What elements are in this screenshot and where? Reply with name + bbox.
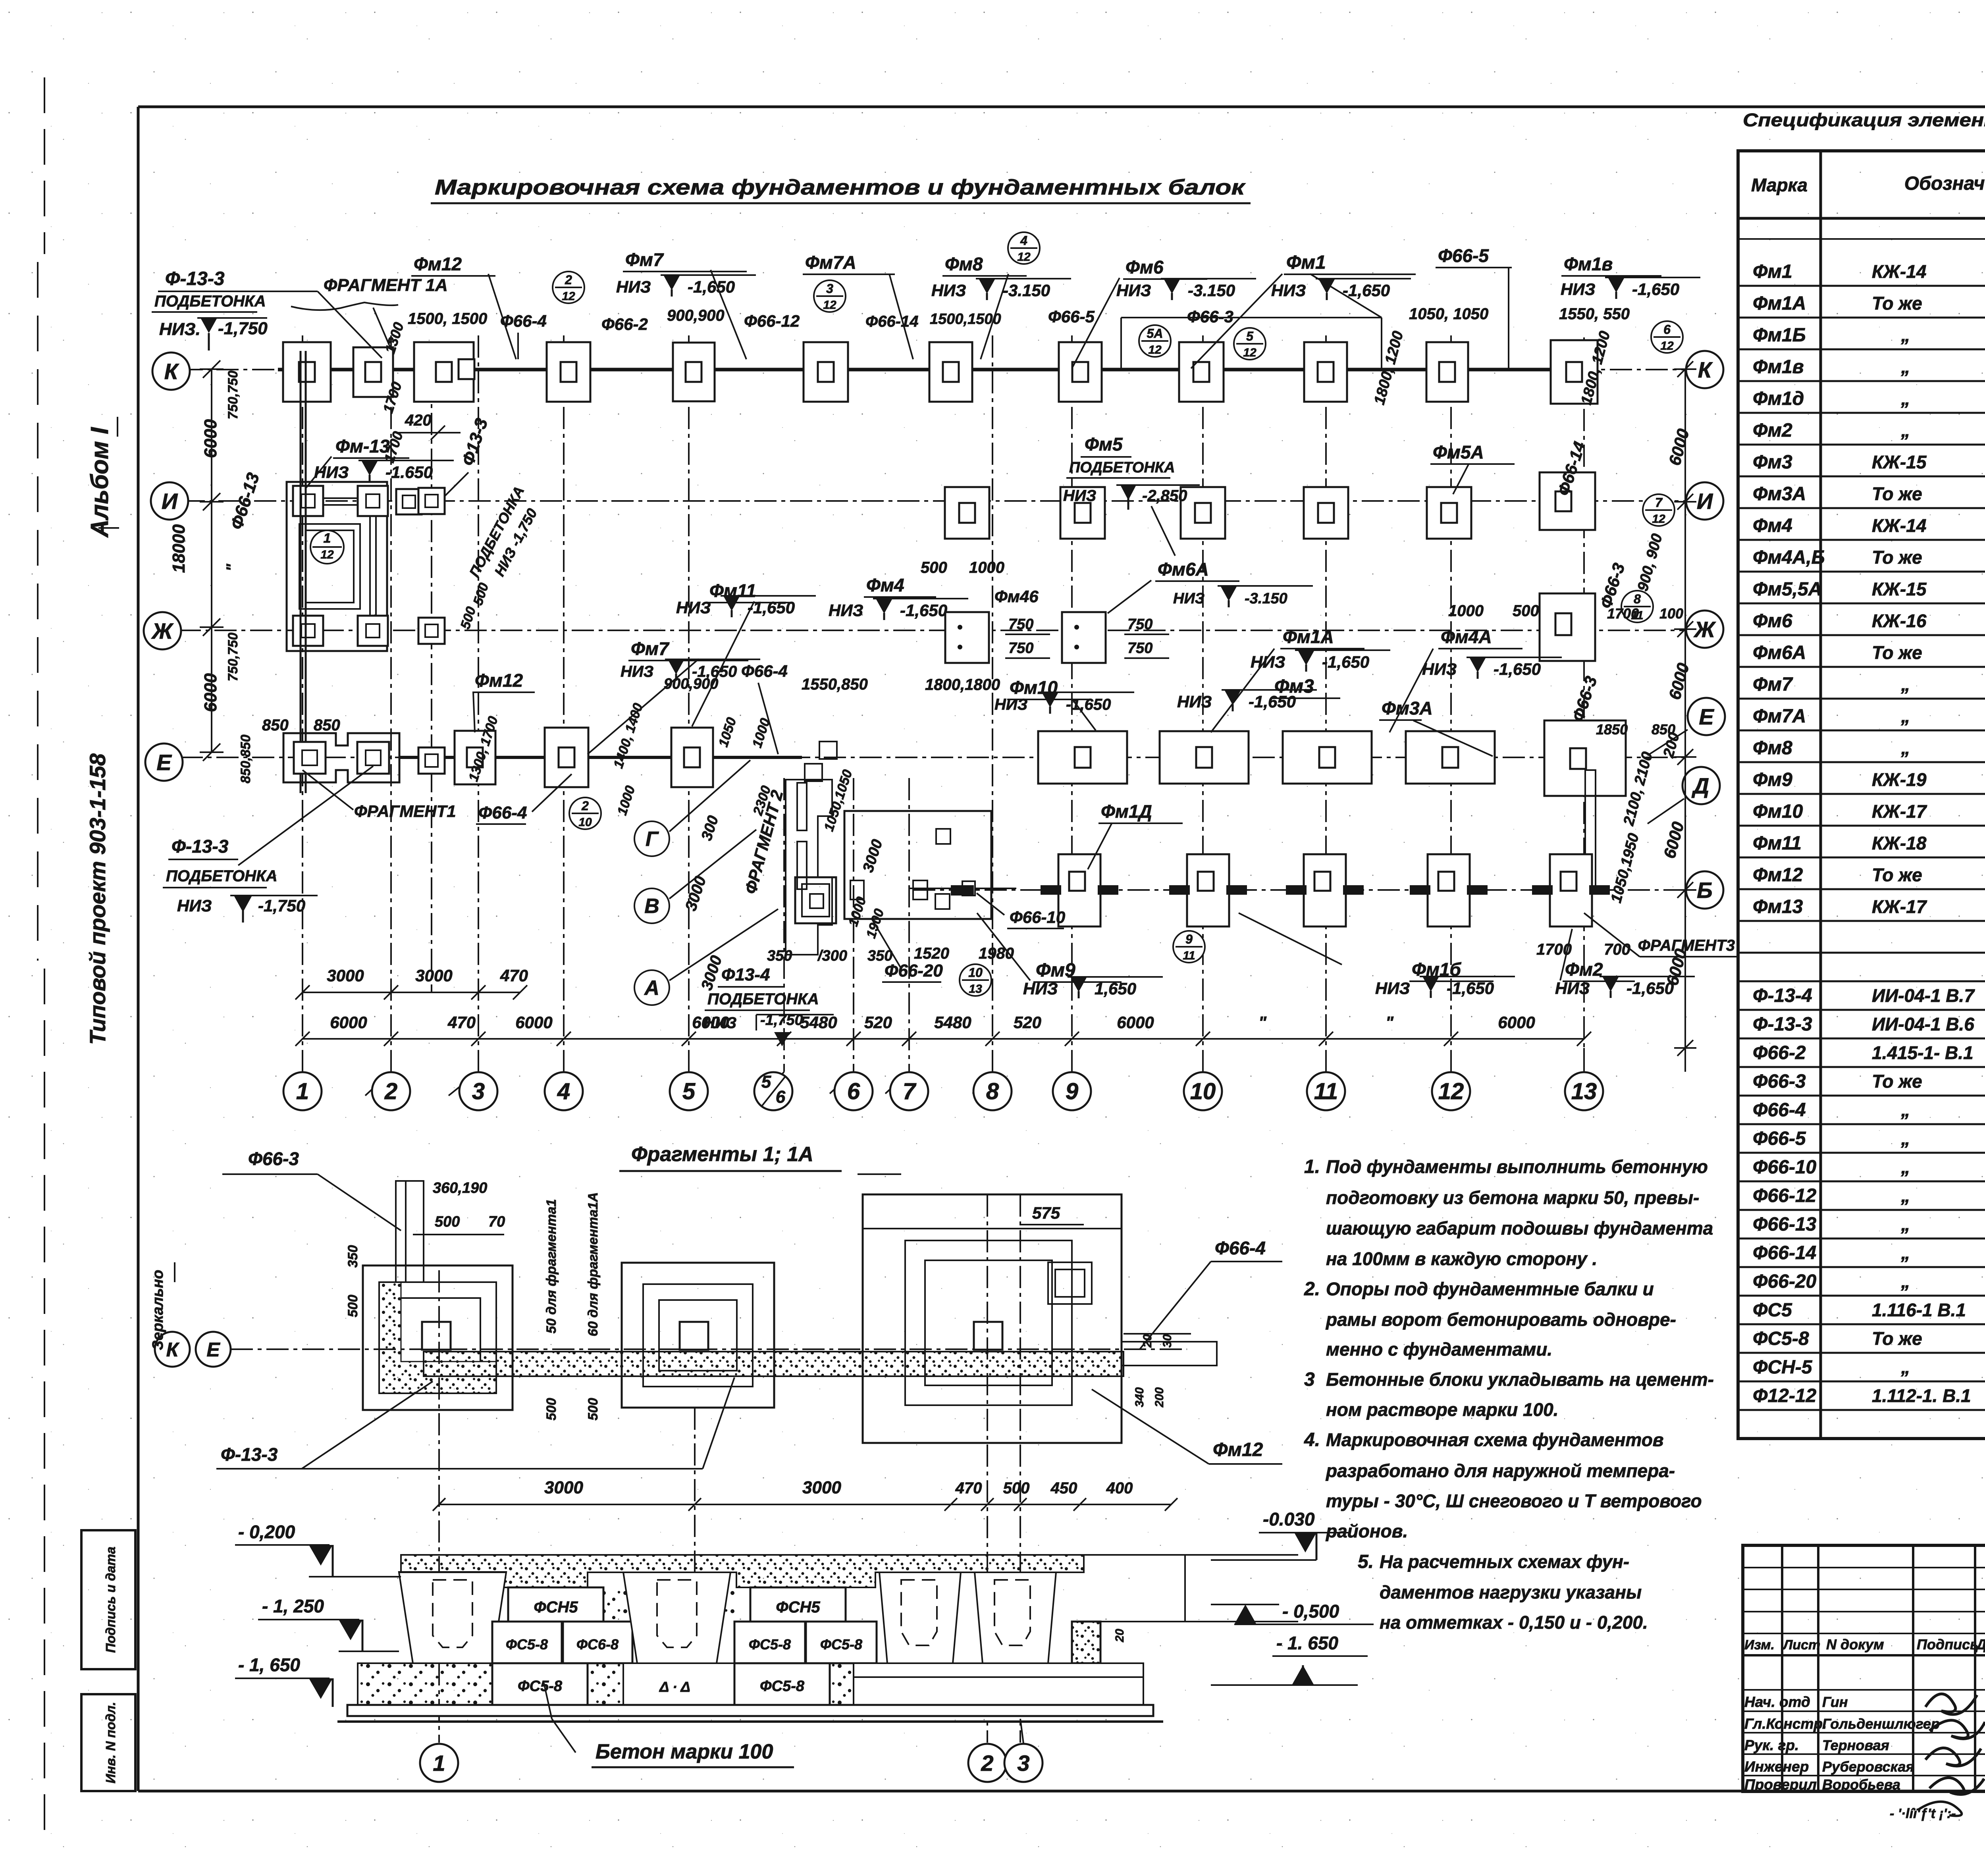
svg-text:750: 750: [1127, 616, 1152, 633]
svg-text:470: 470: [500, 966, 528, 985]
fragment 2 complex: [786, 780, 836, 955]
svg-text:Ф66-10: Ф66-10: [1010, 908, 1065, 926]
svg-text:9: 9: [1185, 932, 1193, 946]
svg-text:И: И: [1697, 489, 1713, 514]
svg-text:3: 3: [1017, 1751, 1029, 1776]
pair square row Ж x2730: [1062, 612, 1106, 663]
svg-text:12: 12: [823, 299, 836, 312]
axis line Ж: [179, 630, 1685, 631]
dim 1050 1950 rotated: [1608, 832, 1642, 905]
svg-text:Ф66-14: Ф66-14: [1753, 1242, 1816, 1264]
table row 38 Ф12-12: [1753, 1380, 1985, 1406]
svg-text:Фм12: Фм12: [414, 254, 462, 274]
svg-text:- 1, 650: - 1, 650: [238, 1655, 300, 1675]
svg-text:ФС5-8: ФС5-8: [518, 1678, 563, 1695]
svg-text:Фм1Д: Фм1Д: [1101, 801, 1152, 822]
label Ф66-3 fragment: [222, 1148, 401, 1231]
svg-text:11: 11: [1314, 1079, 1338, 1104]
svg-text:Типовой проект 903-1-158: Типовой проект 903-1-158: [85, 753, 110, 1045]
svg-text:400: 400: [1106, 1479, 1133, 1497]
svg-text:НИЗ: НИЗ: [994, 696, 1027, 713]
svg-text:ФС5-8: ФС5-8: [820, 1636, 862, 1653]
svg-text:Фм4: Фм4: [866, 575, 904, 595]
svg-text:Фм7: Фм7: [631, 638, 670, 659]
svg-text:Спецификация элементов к ма: Спецификация элементов к маркировочной с…: [1743, 110, 1985, 130]
label Ф66-4 bottom: [476, 774, 572, 824]
svg-text:6000: 6000: [201, 419, 220, 458]
svg-text:60 для фрагмента1А: 60 для фрагмента1А: [586, 1192, 601, 1336]
svg-text:КЖ-15: КЖ-15: [1872, 579, 1927, 599]
section trapezoid pedestal 2: [623, 1572, 730, 1663]
svg-text:Фм-13: Фм-13: [335, 436, 390, 456]
table row 30 Ф66-10: [1753, 1157, 1985, 1178]
foundation square row К #5: [673, 343, 715, 401]
fragment corner square (776,1589): [293, 616, 323, 646]
svg-text:„: „: [1901, 1128, 1910, 1149]
label Ф13-4: [703, 965, 834, 1046]
svg-text:340: 340: [1133, 1387, 1146, 1407]
title block frame: [1743, 1545, 1985, 1791]
table row 14 Фм7: [1753, 673, 1985, 695]
fraction circle 7/12: [1643, 494, 1675, 526]
fragment left vertical bar: [396, 1181, 424, 1282]
svg-text:„: „: [1901, 1271, 1910, 1292]
level mark -1,650 left: [235, 1655, 333, 1707]
svg-text:ФС5-8: ФС5-8: [1753, 1328, 1809, 1349]
row Е square x1427: [545, 728, 588, 787]
svg-text:100: 100: [1659, 605, 1683, 622]
svg-text:750: 750: [1127, 640, 1152, 657]
note line 3187: [1326, 1248, 1597, 1269]
table row 4 Фм1в: [1753, 356, 1985, 378]
table row 11 Фм5,5А: [1753, 578, 1985, 600]
svg-text:„: „: [1901, 1185, 1910, 1206]
rotated Ф66-3 right a: [1596, 561, 1628, 611]
table row 37 ФСН-5: [1753, 1357, 1985, 1378]
svg-text:ном растворе марки 100.: ном растворе марки 100.: [1326, 1399, 1559, 1420]
svg-text:Фм1Б: Фм1Б: [1753, 325, 1806, 346]
row Б square x3337: [1286, 854, 1364, 926]
fragment 1 outline row Е: [283, 733, 399, 782]
column circle 4: [545, 1072, 583, 1110]
table row 34 Ф66-20: [1753, 1271, 1985, 1292]
rotated dim 1700: [380, 380, 405, 415]
svg-text:Ф66-2: Ф66-2: [1753, 1042, 1806, 1063]
svg-text:НИЗ: НИЗ: [829, 601, 863, 620]
dim 1500 1500: [408, 310, 487, 327]
svg-text:3000: 3000: [802, 1478, 841, 1497]
rotated dim 300: [698, 768, 887, 940]
label Фм1в: [1561, 254, 1661, 276]
svg-text:То же: То же: [1872, 293, 1922, 314]
svg-text:1.: 1.: [1304, 1156, 1320, 1177]
svg-text:-1,650: -1,650: [1447, 979, 1494, 998]
column circle 12: [1432, 1072, 1470, 1110]
svg-text:Терновая: Терновая: [1822, 1737, 1889, 1753]
svg-text:Фм1А: Фм1А: [1283, 626, 1334, 647]
svg-text:70: 70: [488, 1213, 505, 1230]
rotated dim 1300: [382, 320, 407, 356]
table row 32 Ф66-13: [1753, 1214, 1985, 1235]
svg-text:НИЗ: НИЗ: [621, 663, 653, 680]
section stipple gap: [603, 1587, 734, 1622]
vertical text Типовой проект 903-1-158: [85, 753, 110, 1045]
svg-text:2: 2: [565, 273, 572, 287]
fraction circle 1/12: [310, 530, 344, 564]
dim 2100 2100 rotated: [1620, 750, 1656, 828]
svg-text:Е: Е: [206, 1339, 220, 1361]
axis circle Д right: [1648, 767, 1720, 824]
svg-text:ФС6-8: ФС6-8: [576, 1636, 619, 1653]
table row 24 Ф-13-4: [1753, 985, 1985, 1006]
dim 500 1000: [921, 559, 947, 576]
svg-text:Фм3: Фм3: [1753, 452, 1792, 473]
row Б square x3043: [1169, 854, 1247, 926]
svg-text:3: 3: [472, 1079, 485, 1104]
col13 block row Е: [1544, 720, 1626, 889]
svg-text:850: 850: [262, 717, 289, 734]
big rectangle row Е x3343: [1283, 731, 1372, 784]
svg-text:6000: 6000: [1117, 1013, 1154, 1032]
svg-text:ПОДБЕТОНКА: ПОДБЕТОНКА: [166, 867, 278, 885]
table row 13 Фм6А: [1753, 641, 1985, 663]
svg-text:750,750: 750,750: [225, 370, 241, 419]
dims right of beam: [1124, 1334, 1191, 1408]
label Фм1А: [1211, 626, 1364, 732]
fraction circle 9/11: [1173, 931, 1205, 963]
svg-text:Ф66-4: Ф66-4: [1215, 1238, 1266, 1258]
svg-text:Ф66-13: Ф66-13: [1753, 1214, 1817, 1235]
svg-text:Д: Д: [1692, 773, 1709, 798]
svg-text:НИЗ.: НИЗ.: [159, 320, 200, 339]
fragment beam stippled: [424, 1352, 1124, 1376]
column circle 3: [459, 1072, 497, 1110]
note line 3797: [1326, 1491, 1702, 1511]
svg-text:7: 7: [1655, 495, 1663, 510]
note line 4027: [1380, 1582, 1642, 1602]
svg-text:Ф66-20: Ф66-20: [1753, 1271, 1817, 1292]
svg-text:2: 2: [581, 799, 589, 813]
rotated dim 3000 b: [698, 953, 725, 992]
svg-text:7: 7: [903, 1079, 917, 1104]
note line 3340: [1325, 1309, 1676, 1330]
column circle 10: [1184, 1072, 1222, 1110]
svg-text:500: 500: [544, 1398, 559, 1421]
label Ф66-2: [601, 315, 648, 333]
right dim chain: [1674, 361, 1696, 1072]
table row 25 Ф-13-3: [1753, 1014, 1985, 1035]
svg-text:Ф66-5: Ф66-5: [1438, 245, 1489, 266]
bracket Ф66-3: [1121, 274, 1382, 368]
svg-text:500: 500: [345, 1295, 360, 1317]
svg-text:12: 12: [1243, 346, 1257, 359]
table row 1 Фм1: [1753, 260, 1985, 282]
title block left grid: [1743, 1545, 1985, 1791]
svg-text:НИЗ: НИЗ: [1561, 280, 1596, 299]
svg-text:Дата: Дата: [1975, 1636, 1985, 1653]
column circle 9: [1053, 1072, 1091, 1110]
низ -1,650 Фм4А: [1422, 657, 1562, 679]
label Ф66-20: [872, 919, 943, 982]
axis circle К right: [1686, 351, 1723, 388]
svg-text:на отметках - 0,150 и - 0,: на отметках - 0,150 и - 0,200.: [1380, 1612, 1648, 1633]
svg-text:ИИ-04-1 В.7: ИИ-04-1 В.7: [1872, 985, 1975, 1006]
svg-text:„: „: [1901, 1357, 1910, 1377]
svg-text:ФС5: ФС5: [1753, 1300, 1792, 1321]
svg-text:-1.650: -1.650: [385, 463, 433, 482]
section column circles: [420, 1744, 458, 1782]
foundation square row И x3650: [1427, 487, 1471, 539]
column circle 6: [834, 1072, 873, 1110]
svg-text:Фм1д: Фм1д: [1753, 388, 1804, 409]
axis circle Ж left: [144, 612, 181, 649]
svg-text:8: 8: [1634, 592, 1641, 606]
table row 17 Фм9: [1753, 769, 1985, 790]
svg-text:1.116-1 В.1: 1.116-1 В.1: [1872, 1300, 1966, 1320]
svg-text:-1,650: -1,650: [1249, 692, 1296, 711]
svg-text:НИЗ: НИЗ: [1251, 653, 1285, 671]
svg-text:КЖ-15: КЖ-15: [1872, 452, 1927, 472]
svg-text:Нач. отд: Нач. отд: [1744, 1694, 1810, 1710]
svg-text:850: 850: [314, 717, 340, 734]
svg-text:3: 3: [1304, 1369, 1315, 1390]
svg-text:1800,1800: 1800,1800: [925, 676, 1000, 693]
svg-text:1: 1: [296, 1079, 309, 1104]
svg-text:6000: 6000: [1498, 1013, 1535, 1032]
svg-text:520: 520: [1014, 1013, 1041, 1032]
axis circle Ж right: [1686, 611, 1723, 648]
svg-text:5: 5: [1246, 329, 1254, 343]
axis circle Е left: [145, 743, 183, 781]
foundation square row К #2: [353, 347, 393, 397]
низ -1,650 Фм4: [829, 599, 968, 620]
svg-text:ПОДБЕТОНКА: ПОДБЕТОНКА: [1069, 459, 1175, 476]
svg-text:К: К: [1698, 357, 1713, 382]
svg-text:": ": [224, 563, 241, 571]
svg-text:Опоры под фундаментные ба: Опоры под фундаментные балки и: [1326, 1279, 1654, 1299]
svg-text:Лист: Лист: [1782, 1637, 1820, 1653]
sheet edge dashed line: [38, 77, 44, 1846]
svg-text:ФС5-8: ФС5-8: [760, 1678, 805, 1695]
svg-text:1.415-1- В.1: 1.415-1- В.1: [1872, 1042, 1973, 1063]
svg-text:ФСН-5: ФСН-5: [1753, 1357, 1813, 1378]
label Фм2: [1560, 929, 1635, 981]
svg-text:Фм8: Фм8: [1753, 738, 1792, 759]
svg-text:Фм5,5А: Фм5,5А: [1753, 579, 1822, 600]
table row 35 ФС5: [1753, 1293, 1985, 1321]
axis circle И left: [151, 482, 188, 520]
svg-text:ПОДБЕТОНКА: ПОДБЕТОНКА: [154, 293, 266, 310]
label Фм7: [623, 249, 747, 359]
низ -1,650 Фм16: [1375, 977, 1515, 998]
note line 3110: [1326, 1218, 1713, 1238]
svg-text:Воробьева: Воробьева: [1822, 1776, 1900, 1793]
axis circle Г: [634, 760, 750, 856]
svg-text:„: „: [1901, 420, 1910, 441]
svg-text:- 1, 250: - 1, 250: [262, 1596, 324, 1616]
svg-text:360,190: 360,190: [433, 1180, 487, 1196]
note line 3415: [1326, 1339, 1552, 1360]
svg-text:НИЗ: НИЗ: [1116, 281, 1151, 300]
rotated labels фрагмента columns: [0, 0, 0, 0]
fraction circle 6/12: [1651, 321, 1683, 353]
foundation square row К #10: [1304, 342, 1347, 402]
label Фм12 row Е: [472, 670, 535, 732]
table row 36 ФС5-8: [1753, 1328, 1985, 1349]
svg-text:Фм12: Фм12: [475, 670, 523, 691]
document number bottom: [1890, 1803, 1985, 1830]
title block header labels: [1744, 1636, 1985, 1653]
note line 3567: [1326, 1399, 1559, 1420]
heavy wall line col1: [301, 351, 306, 793]
svg-text:КЖ-17: КЖ-17: [1872, 801, 1927, 822]
svg-text:4.: 4.: [1304, 1429, 1320, 1450]
svg-text:5: 5: [761, 1072, 771, 1092]
label Фм1Д: [1088, 801, 1183, 869]
svg-text:Подпись и дата: Подпись и дата: [103, 1547, 118, 1653]
column circle 7: [890, 1072, 928, 1110]
column circle 5/6: [754, 1072, 792, 1110]
extra inner square row К col3: [459, 359, 474, 379]
row Е square x1196: [455, 731, 495, 784]
svg-text:- 0,500: - 0,500: [1282, 1601, 1339, 1622]
axis line Е: [181, 757, 1685, 758]
section block ФСН5 #2: [750, 1587, 846, 1622]
note line 3643: [1304, 1429, 1664, 1450]
label Фм8: [942, 254, 1027, 359]
svg-text:Ф12-12: Ф12-12: [1753, 1385, 1817, 1406]
big rectangle row Е x2727: [1038, 731, 1127, 784]
label Фм3А: [1379, 698, 1493, 756]
label Фм16: [1239, 913, 1494, 981]
fragment1 square x780: [294, 742, 326, 774]
svg-text:470: 470: [447, 1013, 476, 1032]
svg-text:Фм6: Фм6: [1753, 611, 1792, 632]
svg-text:То же: То же: [1872, 642, 1922, 663]
svg-text:И: И: [162, 489, 178, 514]
table row 21 Фм13: [1753, 896, 1985, 917]
svg-text:ФРАГМЕНТ1: ФРАГМЕНТ1: [354, 802, 456, 821]
level mark -0,500: [1211, 1601, 1374, 1624]
column circle 1: [283, 1072, 322, 1110]
table row 5 Фм1д: [1753, 387, 1985, 409]
svg-text:10: 10: [578, 816, 592, 829]
dim 1800 1200 rotated: [1371, 329, 1614, 407]
dim 1700 700: [1536, 941, 1572, 958]
svg-text:- '·líï'ƒ't ¡':-: - '·líï'ƒ't ¡':-: [1890, 1806, 1956, 1821]
foundation beam row К: [278, 368, 1564, 372]
note line 3873: [1325, 1521, 1408, 1541]
label Ф66-4 fragment: [1139, 1238, 1282, 1350]
svg-text:на 100мм в каждую сторону: на 100мм в каждую сторону .: [1326, 1248, 1597, 1269]
svg-text:НИЗ: НИЗ: [1271, 281, 1306, 300]
row Б left tick x2160: [850, 880, 864, 899]
svg-text:„: „: [1901, 738, 1910, 758]
fragment right tail: [1122, 1342, 1217, 1366]
svg-text:Ф66-12: Ф66-12: [1753, 1185, 1817, 1206]
label Ф66-3: [1187, 307, 1233, 326]
svg-text:/300: /300: [817, 948, 847, 964]
svg-text:НИЗ: НИЗ: [1023, 979, 1058, 998]
foundation square row К #6: [804, 342, 848, 402]
axis circle А: [634, 909, 778, 1005]
svg-text:500: 500: [586, 1398, 601, 1421]
svg-text:500: 500: [1003, 1479, 1030, 1497]
fragment1 square x940: [357, 742, 389, 774]
svg-text:5А: 5А: [1147, 326, 1163, 341]
label Фм9: [977, 913, 1122, 982]
svg-text:„: „: [1901, 325, 1910, 345]
section top stipple band: [401, 1555, 1084, 1587]
svg-text:1000: 1000: [969, 559, 1004, 576]
foundation square row К #1: [283, 342, 331, 402]
rotated label Зеркально: [150, 1262, 175, 1350]
svg-text:Фм7А: Фм7А: [1753, 706, 1806, 727]
svg-text:13: 13: [1571, 1079, 1597, 1104]
fragment right detail: [863, 1194, 1122, 1443]
dim 6000 rotated right d: [1663, 947, 1690, 987]
svg-text:Изм.: Изм.: [1744, 1637, 1775, 1653]
section block ФСН5 #1: [508, 1587, 603, 1622]
label Фм12 fragment: [1092, 1389, 1282, 1464]
svg-text:-1,750: -1,750: [218, 319, 268, 338]
foundation square row К #11: [1426, 342, 1468, 402]
table row 2 Фм1А: [1753, 292, 1985, 314]
fragment corner square (776,1262): [293, 486, 323, 516]
fragment column lines down: [439, 1194, 1020, 1743]
svg-text:12: 12: [320, 548, 334, 561]
svg-text:ИИ-04-1 В.6: ИИ-04-1 В.6: [1872, 1014, 1974, 1034]
низ 1,650 row Ж: [621, 659, 760, 681]
svg-text:1.112-1. В.1: 1.112-1. В.1: [1872, 1385, 1971, 1406]
svg-text:18000: 18000: [169, 524, 189, 573]
table row 7 Фм3: [1753, 451, 1985, 473]
svg-text:Фм4А,Б: Фм4А,Б: [1753, 547, 1825, 568]
stamp box Подпись и дата: [81, 1530, 135, 1669]
foundation square row К #9: [1179, 342, 1224, 402]
svg-text:ФС5-8: ФС5-8: [749, 1636, 791, 1653]
svg-text:-1,650: -1,650: [900, 601, 947, 620]
svg-text:НИЗ: НИЗ: [676, 598, 711, 617]
table row 27 Ф66-3: [1753, 1071, 1985, 1092]
svg-text:N докум: N докум: [1826, 1636, 1884, 1653]
level mark -1.650 right: [1211, 1633, 1368, 1685]
svg-text:Фм4: Фм4: [1753, 515, 1792, 536]
axis line К: [181, 369, 1685, 370]
dim 6000 rotated right a: [1665, 427, 1693, 467]
title block staff rows: [1744, 1694, 1940, 1793]
label Фм4: [864, 575, 936, 597]
svg-text:12: 12: [1652, 512, 1665, 526]
svg-text:Ф66-2: Ф66-2: [601, 315, 648, 333]
level mark -0,200: [235, 1522, 401, 1577]
svg-text:Ф66-4: Ф66-4: [500, 312, 547, 330]
section trapezoids right pair: [879, 1572, 1056, 1663]
dim 1550 550: [1559, 305, 1630, 323]
svg-text:Ж: Ж: [1693, 617, 1716, 642]
svg-text:Ж: Ж: [151, 618, 174, 643]
section row3: [358, 1663, 1143, 1705]
svg-text:-1,750: -1,750: [258, 896, 305, 915]
svg-text:Инв. N подл.: Инв. N подл.: [103, 1702, 118, 1783]
row Б square x3649: [1410, 854, 1488, 926]
fraction circle 10/13: [960, 964, 991, 996]
svg-text:5480: 5480: [800, 1013, 837, 1032]
svg-text:разработано для наружной т: разработано для наружной темпера-: [1325, 1460, 1675, 1481]
table row 10 Фм4А,Б: [1753, 546, 1985, 568]
svg-text:Инженер: Инженер: [1744, 1759, 1809, 1775]
label Фм-13: [306, 436, 409, 488]
